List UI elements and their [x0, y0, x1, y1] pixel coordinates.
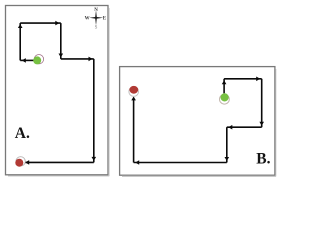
panel A frame	[6, 6, 110, 177]
arrowhead west on middle leg	[228, 125, 232, 130]
svg-text:N: N	[94, 8, 98, 13]
arrowhead north above green	[222, 80, 227, 84]
svg-text:B.: B.	[256, 151, 270, 168]
arrowhead south on right leg	[259, 122, 264, 126]
wire long south leg (right)	[93, 59, 95, 162]
wire south leg (middle)	[226, 127, 228, 162]
arrowhead south on middle leg	[225, 157, 230, 161]
wire north stub from green	[223, 79, 225, 94]
svg-text:S: S	[95, 25, 98, 30]
arrowhead north at red	[131, 96, 136, 100]
wire green to west corner	[20, 59, 34, 61]
arrowhead south on middle leg	[59, 54, 64, 58]
svg-text:A.: A.	[15, 125, 30, 142]
wire east leg (top)	[20, 22, 61, 24]
wire north leg	[19, 23, 21, 60]
arrowhead east on top leg	[256, 77, 260, 82]
start marker green A	[33, 56, 41, 64]
arrowhead south on right leg	[92, 157, 97, 161]
compass rose	[85, 8, 107, 30]
panel B frame	[120, 67, 276, 177]
start marker ring A	[34, 55, 43, 64]
end marker ring B	[129, 87, 139, 97]
wire east leg (top)	[224, 78, 262, 80]
start marker green B	[221, 93, 229, 101]
arrowhead north at top-left corner	[18, 24, 23, 28]
start marker ring B	[220, 94, 230, 104]
end marker red A	[15, 159, 23, 167]
wire north leg to red	[133, 100, 135, 163]
arrowhead east on middle leg	[89, 57, 93, 62]
end marker red B	[129, 86, 138, 94]
svg-text:W: W	[85, 17, 90, 22]
arrowhead west near green	[22, 58, 26, 63]
arrowhead west on bottom leg	[135, 160, 139, 165]
wire east leg (middle)	[61, 58, 94, 60]
arrowhead west on bottom leg	[25, 160, 29, 165]
wire south leg (right)	[261, 79, 263, 127]
wire west leg (middle)	[227, 126, 262, 128]
panel B route wire: green start N,E,S,W,S,W,N to red end	[134, 79, 262, 163]
end marker ring A	[16, 157, 25, 166]
wire west leg (bottom)	[134, 162, 227, 164]
panel A route wire: green start, W,N,E,S,E,S,W to red end	[20, 23, 94, 162]
arrowhead east on top leg	[55, 21, 59, 26]
wire south leg (middle)	[60, 23, 62, 59]
wire west leg (bottom) to red	[25, 161, 94, 163]
